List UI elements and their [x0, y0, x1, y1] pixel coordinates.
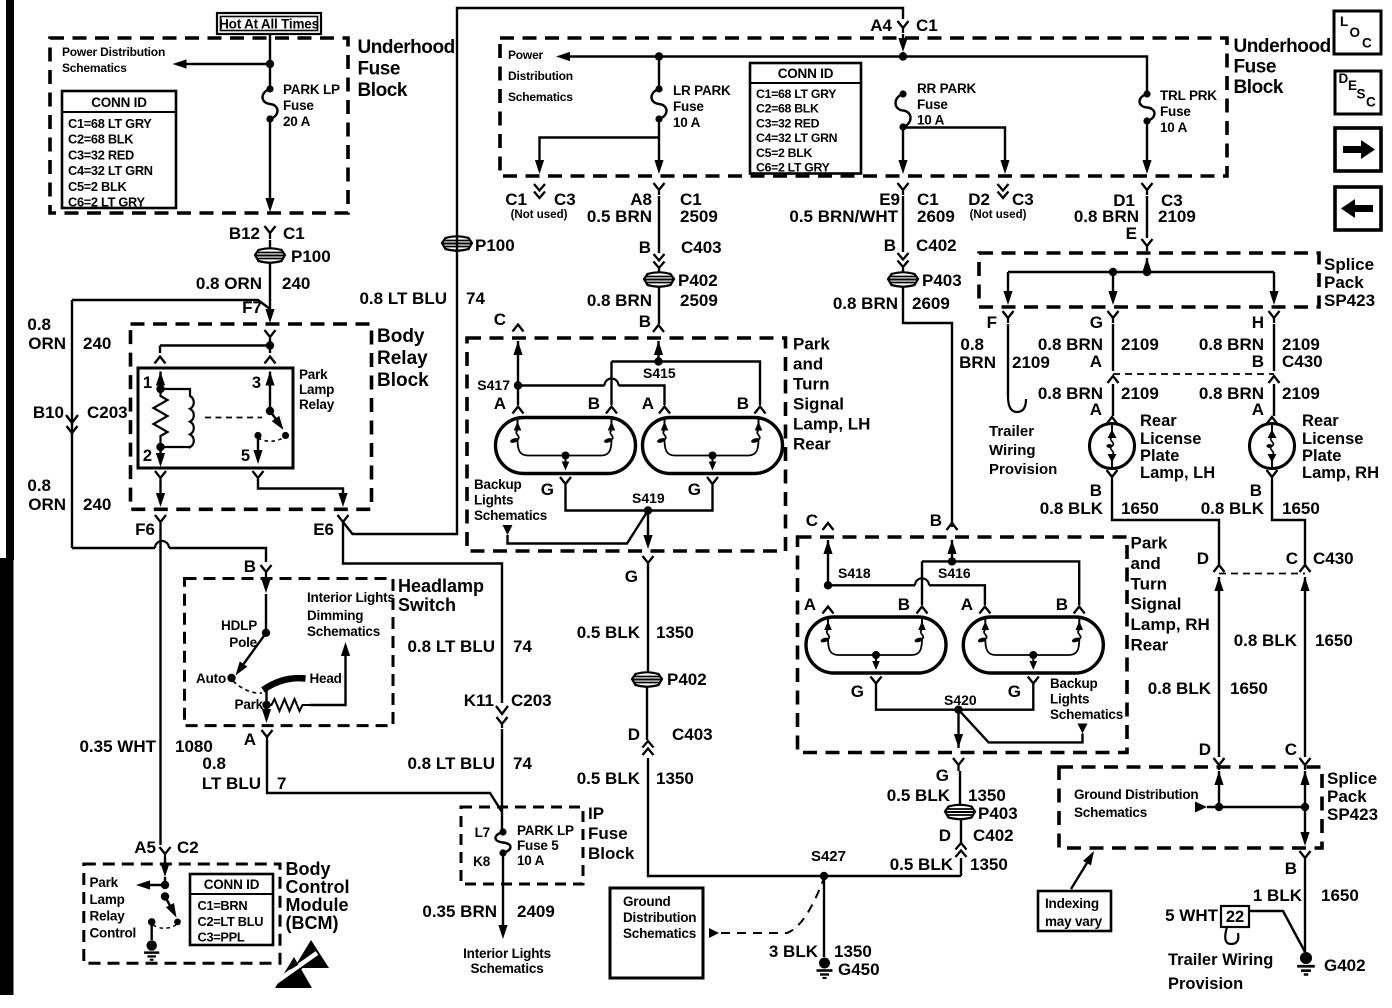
svg-text:Trailer: Trailer	[989, 423, 1034, 440]
svg-text:Block: Block	[358, 80, 408, 101]
svg-text:0.8 LT BLU: 0.8 LT BLU	[407, 754, 495, 773]
arrow fuse block feed	[902, 34, 904, 40]
svg-text:Signal: Signal	[793, 395, 844, 414]
svg-text:Park: Park	[90, 875, 119, 890]
svg-text:1350: 1350	[656, 623, 694, 642]
wire D to splice pack	[1214, 577, 1223, 591]
svg-text:0.5 BLK: 0.5 BLK	[577, 769, 641, 788]
svg-text:C1=68 LT GRY: C1=68 LT GRY	[756, 87, 836, 101]
svg-text:C1: C1	[283, 224, 305, 243]
svg-text:3 BLK: 3 BLK	[769, 942, 819, 961]
wire E6 up to fuse block feed	[343, 8, 903, 534]
splice S417	[513, 341, 522, 355]
svg-text:Park: Park	[1131, 534, 1168, 553]
svg-text:Lights: Lights	[474, 493, 513, 508]
dashed travel arc	[233, 681, 262, 693]
svg-text:Headlamp: Headlamp	[398, 576, 484, 596]
dashed box IP Fuse Block	[461, 807, 583, 884]
svg-text:0.35 BRN: 0.35 BRN	[422, 902, 497, 921]
svg-text:A: A	[1090, 352, 1102, 371]
svg-text:Block: Block	[588, 844, 635, 863]
lamp park/turn RH inner	[963, 617, 1103, 673]
dashed box Headlamp Switch	[185, 579, 394, 726]
wire C to splice pack	[1300, 577, 1309, 591]
svg-text:S419: S419	[632, 490, 665, 506]
svg-text:C: C	[1366, 95, 1376, 110]
svg-text:C203: C203	[87, 403, 128, 422]
wire C ground out	[1304, 807, 1306, 838]
splice S427	[820, 872, 828, 880]
relay coil-switch dashed link	[205, 417, 262, 419]
svg-text:Block: Block	[1234, 77, 1284, 98]
svg-text:Provision: Provision	[989, 461, 1057, 478]
svg-text:B: B	[1285, 859, 1297, 878]
svg-text:0.5 BRN/WHT: 0.5 BRN/WHT	[789, 207, 898, 226]
svg-text:L7: L7	[475, 825, 490, 840]
svg-text:C403: C403	[681, 238, 722, 257]
svg-text:Block: Block	[377, 370, 429, 391]
splice bus ground	[1214, 771, 1223, 785]
connector C lower	[1300, 758, 1311, 770]
arrow to Power Distribution Schematics	[184, 63, 270, 65]
svg-text:Schematics: Schematics	[474, 508, 547, 523]
svg-text:0.8 LT BLU: 0.8 LT BLU	[359, 289, 447, 308]
connector B below LH plate lamp	[1107, 470, 1118, 482]
svg-text:10 A: 10 A	[1160, 120, 1188, 135]
svg-text:240: 240	[83, 334, 111, 353]
svg-text:Indexing: Indexing	[1045, 896, 1099, 911]
wire 0.35 BRN 2409	[502, 853, 504, 925]
wire branch to D2/C3 not used	[903, 128, 1005, 163]
svg-text:C2: C2	[177, 838, 199, 857]
svg-text:Turn: Turn	[1131, 574, 1168, 593]
svg-text:Schematics: Schematics	[470, 961, 543, 976]
svg-text:C: C	[1285, 740, 1297, 759]
connector G lamp2	[707, 477, 718, 489]
button LOC	[1334, 11, 1381, 54]
svg-text:B: B	[1252, 352, 1264, 371]
svg-text:Control: Control	[90, 926, 137, 941]
ground G402	[1297, 952, 1315, 975]
fuse RR PARK 10 A	[899, 90, 906, 97]
svg-text:Interior Lights: Interior Lights	[463, 946, 551, 961]
svg-text:P402: P402	[667, 670, 707, 689]
svg-text:0.8 BLK: 0.8 BLK	[1234, 631, 1298, 650]
wire H drop	[1273, 272, 1275, 296]
svg-text:Splice: Splice	[1324, 255, 1374, 274]
svg-text:A4: A4	[870, 16, 892, 35]
svg-text:7: 7	[277, 774, 286, 793]
svg-text:(BCM): (BCM)	[286, 913, 339, 933]
svg-text:1650: 1650	[1121, 499, 1159, 518]
svg-text:G: G	[1090, 313, 1103, 332]
dashed box Body Control Module	[84, 864, 280, 963]
wire 0.8 ORN 240	[269, 262, 271, 318]
BCM switch contact and ground	[148, 918, 156, 926]
wire F trailer provision stub	[1007, 324, 1009, 396]
svg-text:C3=PPL: C3=PPL	[198, 930, 245, 945]
svg-text:10 A: 10 A	[673, 115, 701, 130]
svg-text:L: L	[1340, 14, 1348, 29]
svg-text:E6: E6	[313, 520, 334, 539]
svg-text:P403: P403	[978, 804, 1018, 823]
svg-text:Relay: Relay	[90, 909, 126, 924]
wire Hot feed down	[269, 34, 271, 89]
svg-text:BRN: BRN	[959, 353, 996, 372]
BCM driver switch	[161, 892, 169, 900]
svg-text:Schematics: Schematics	[1050, 707, 1123, 722]
svg-text:P402: P402	[678, 271, 718, 290]
svg-text:B: B	[737, 394, 749, 413]
svg-text:CONN ID: CONN ID	[778, 66, 834, 81]
wire 0.8 ORN 240 left branch	[71, 300, 73, 548]
svg-text:Switch: Switch	[398, 595, 456, 615]
svg-text:Lamp, RH: Lamp, RH	[1131, 615, 1210, 634]
svg-text:C1=BRN: C1=BRN	[198, 898, 248, 913]
svg-text:D: D	[939, 826, 951, 845]
svg-text:SP423: SP423	[1324, 291, 1375, 310]
svg-text:K11: K11	[464, 691, 494, 710]
svg-text:Schematics: Schematics	[62, 61, 127, 75]
svg-text:IP: IP	[588, 804, 604, 823]
arrow park lamp relay control	[147, 884, 165, 886]
contact Head thick arc	[263, 678, 306, 690]
svg-text:B10: B10	[33, 403, 64, 422]
svg-text:Rear: Rear	[793, 435, 831, 454]
lamp Rear License Plate LH	[1107, 417, 1118, 424]
label Hot At All Times	[217, 13, 321, 34]
svg-text:1: 1	[143, 374, 152, 392]
relay pin 2	[156, 443, 164, 451]
svg-text:S: S	[1357, 87, 1366, 102]
svg-text:License: License	[1140, 430, 1201, 448]
splice S419	[566, 489, 713, 511]
svg-text:Lamp, LH: Lamp, LH	[793, 415, 870, 434]
lamp Rear License Plate RH	[1267, 417, 1278, 424]
svg-text:Backup: Backup	[474, 477, 522, 492]
connector G exit LH cluster	[643, 556, 654, 569]
svg-text:Relay: Relay	[299, 397, 335, 412]
svg-text:Distribution: Distribution	[508, 69, 573, 83]
relay pin 2 exit to F6	[155, 471, 166, 478]
wire 0.5 BRN/WHT 2609	[902, 196, 904, 252]
connector A	[262, 730, 273, 742]
svg-text:0.35 WHT: 0.35 WHT	[79, 737, 156, 756]
wire TRL PRK output	[1146, 121, 1148, 162]
pointer Backup Lights Schematics RH	[1078, 724, 1088, 734]
bus wire in fuse block	[568, 57, 1147, 95]
ground G450	[817, 958, 833, 979]
connector A8 C1	[654, 183, 665, 195]
svg-text:B: B	[1250, 481, 1262, 500]
svg-text:0.8 BRN: 0.8 BRN	[587, 291, 652, 310]
wire LR PARK output	[658, 119, 660, 162]
svg-text:5 WHT: 5 WHT	[1165, 906, 1219, 925]
dashed box Underhood Fuse Block (left)	[50, 38, 348, 213]
svg-text:Module: Module	[286, 895, 349, 915]
svg-text:C4=32 LT GRN: C4=32 LT GRN	[756, 131, 838, 145]
svg-text:P403: P403	[922, 271, 962, 290]
svg-text:Lamp: Lamp	[90, 892, 125, 907]
svg-text:C203: C203	[511, 691, 552, 710]
relay pin 5 exit to E6	[253, 471, 264, 478]
svg-text:O: O	[1350, 25, 1361, 40]
svg-text:B: B	[884, 236, 896, 255]
wire branch to C1/C3 not used	[540, 138, 660, 163]
svg-text:C6=2 LT GRY: C6=2 LT GRY	[756, 161, 830, 175]
svg-text:C430: C430	[1313, 549, 1354, 568]
box Ground Distribution Schematics	[610, 888, 703, 978]
wire H 0.8 BRN 2109	[1273, 324, 1275, 371]
svg-text:F6: F6	[135, 520, 155, 539]
svg-text:2609: 2609	[912, 294, 950, 313]
connector G lamp4	[1028, 677, 1039, 689]
svg-text:C: C	[494, 310, 506, 329]
svg-text:Relay: Relay	[377, 348, 428, 369]
svg-text:C6=2 LT GRY: C6=2 LT GRY	[68, 195, 145, 210]
svg-text:B: B	[1090, 481, 1102, 500]
relay pin 1 terminal	[159, 346, 161, 354]
svg-text:B: B	[639, 312, 651, 331]
svg-text:Plate: Plate	[1302, 447, 1341, 465]
button previous arrow	[1335, 187, 1381, 230]
svg-text:B: B	[930, 511, 942, 530]
svg-text:A: A	[1252, 400, 1264, 419]
svg-text:Lamp: Lamp	[299, 382, 334, 397]
svg-text:A: A	[1090, 400, 1102, 419]
svg-text:20 A: 20 A	[283, 114, 311, 129]
svg-text:2609: 2609	[917, 207, 955, 226]
svg-text:H: H	[1252, 313, 1264, 332]
svg-text:F: F	[987, 313, 997, 332]
svg-text:0.5 BRN: 0.5 BRN	[587, 207, 652, 226]
wire relay feed	[269, 338, 271, 346]
svg-text:B: B	[1056, 595, 1068, 614]
svg-text:B: B	[588, 394, 600, 413]
fuse PARK LP 20 A	[266, 85, 273, 92]
svg-text:C1=68 LT GRY: C1=68 LT GRY	[68, 116, 152, 131]
svg-text:G402: G402	[1324, 956, 1366, 975]
dashed box Splice Pack SP423	[979, 253, 1319, 307]
svg-text:0.8: 0.8	[27, 476, 51, 495]
svg-text:240: 240	[282, 274, 310, 293]
svg-text:CONN ID: CONN ID	[91, 95, 147, 110]
wire G 0.5 BLK 1350 RH	[959, 771, 961, 806]
svg-text:Underhood: Underhood	[1234, 36, 1331, 57]
svg-text:Fuse: Fuse	[1160, 104, 1191, 119]
svg-text:C2=LT BLU: C2=LT BLU	[198, 914, 264, 929]
svg-text:Interior Lights: Interior Lights	[307, 590, 395, 605]
svg-text:S417: S417	[477, 377, 510, 393]
svg-text:2509: 2509	[680, 291, 718, 310]
svg-text:Fuse: Fuse	[917, 97, 948, 112]
pointer Backup Lights Schematics LH	[503, 525, 513, 535]
svg-text:Lamp, RH: Lamp, RH	[1302, 464, 1379, 482]
connector F7 entry	[265, 330, 276, 337]
svg-text:may vary: may vary	[1045, 914, 1103, 929]
svg-text:Auto: Auto	[196, 671, 226, 686]
label Indexing may vary	[1038, 891, 1111, 931]
page edge black bar	[6, 0, 14, 560]
svg-text:10 A: 10 A	[917, 113, 945, 128]
svg-text:PARK LP: PARK LP	[283, 82, 340, 97]
svg-text:1650: 1650	[1315, 631, 1353, 650]
dashed box Underhood Fuse Block (center)	[500, 38, 1227, 176]
svg-text:C4=32 LT GRN: C4=32 LT GRN	[68, 163, 153, 178]
contact Park	[265, 690, 267, 705]
svg-text:0.8 BRN: 0.8 BRN	[833, 294, 898, 313]
button next arrow	[1335, 128, 1381, 171]
svg-text:LT BLU: LT BLU	[202, 774, 261, 793]
svg-text:0.8 BLK: 0.8 BLK	[1201, 499, 1265, 518]
svg-text:B12: B12	[229, 224, 260, 243]
connector B below RH plate lamp	[1267, 470, 1278, 482]
svg-text:A: A	[804, 595, 816, 614]
svg-text:Turn: Turn	[793, 375, 830, 394]
splice bus SP423	[1142, 258, 1151, 272]
svg-text:Park: Park	[235, 697, 264, 712]
dashed line C430 lower	[1219, 573, 1305, 575]
svg-text:B: B	[244, 557, 256, 576]
wire to headlamp switch B	[72, 547, 155, 549]
svg-text:1650: 1650	[1321, 886, 1359, 905]
wire trailer stub to ground	[1249, 911, 1305, 952]
svg-text:Fuse 5: Fuse 5	[517, 838, 559, 853]
connector G lamp3	[871, 677, 882, 689]
svg-text:P100: P100	[475, 236, 515, 255]
connector E6	[338, 515, 349, 528]
svg-text:C402: C402	[916, 236, 957, 255]
svg-text:0.8 ORN: 0.8 ORN	[196, 274, 262, 293]
svg-text:Plate: Plate	[1140, 447, 1179, 465]
connector E9 C1	[898, 183, 909, 195]
relay pin 3 switch pivot	[265, 372, 274, 386]
svg-text:C5=2 BLK: C5=2 BLK	[756, 146, 812, 160]
svg-text:LR PARK: LR PARK	[673, 83, 731, 98]
wire 0.8 BRN 2509	[658, 286, 660, 324]
wire park output to A	[265, 705, 267, 717]
svg-text:C3=32 RED: C3=32 RED	[68, 147, 134, 162]
lamp park/turn LH inner	[643, 418, 783, 474]
connector F	[1003, 311, 1014, 323]
svg-text:A: A	[961, 595, 973, 614]
svg-text:RR PARK: RR PARK	[917, 81, 977, 96]
svg-text:Park: Park	[299, 367, 328, 382]
dashed box Park and Turn Signal Lamp RH Rear	[798, 537, 1128, 753]
svg-text:E: E	[1126, 224, 1137, 243]
connector C430 upper dashed	[1113, 373, 1274, 375]
svg-text:Schematics: Schematics	[508, 90, 573, 104]
svg-text:Rear: Rear	[1302, 412, 1339, 430]
svg-text:TRL PRK: TRL PRK	[1160, 88, 1217, 103]
svg-text:C: C	[806, 511, 818, 530]
svg-text:S416: S416	[938, 565, 971, 581]
svg-text:Pack: Pack	[1327, 787, 1367, 806]
connector F6	[155, 515, 166, 528]
fuse TRL PRK 10 A	[1143, 90, 1150, 97]
contact Auto	[227, 674, 235, 682]
svg-text:1650: 1650	[1282, 499, 1320, 518]
svg-text:Fuse: Fuse	[588, 824, 628, 843]
svg-text:Schematics: Schematics	[1074, 805, 1147, 820]
dashed box Park and Turn Signal Lamp LH Rear	[467, 338, 786, 551]
fuse PARK LP Fuse 5 10 A	[499, 828, 506, 835]
connector table CONN ID (BCM)	[190, 874, 273, 945]
inline connector P402	[658, 269, 660, 273]
headlamp switch resistor	[267, 699, 310, 711]
svg-text:A: A	[642, 394, 654, 413]
node F7 branch	[72, 300, 270, 309]
svg-text:74: 74	[513, 754, 532, 773]
button DESC	[1335, 71, 1381, 114]
svg-text:D: D	[628, 725, 640, 744]
svg-text:0.8: 0.8	[202, 754, 226, 773]
svg-text:0.8: 0.8	[27, 315, 51, 334]
connector G	[1108, 311, 1119, 323]
svg-text:Signal: Signal	[1131, 595, 1182, 614]
svg-text:ORN: ORN	[28, 495, 66, 514]
svg-text:1350: 1350	[968, 786, 1006, 805]
svg-text:K8: K8	[473, 854, 491, 869]
svg-text:2109: 2109	[1121, 384, 1159, 403]
wire E6 down to IP fuse block	[343, 528, 502, 703]
svg-text:Ground: Ground	[623, 894, 671, 909]
wire 0.8 BLK 1650 LH	[1112, 482, 1219, 565]
wire S415 to lamps	[654, 341, 663, 355]
svg-text:Rear: Rear	[1131, 636, 1169, 655]
svg-text:S427: S427	[811, 848, 846, 865]
svg-text:(Not used): (Not used)	[970, 209, 1027, 221]
svg-text:1350: 1350	[656, 769, 694, 788]
svg-text:C: C	[1362, 36, 1372, 51]
headlamp switch arm to Auto	[240, 633, 266, 669]
inline connector P403	[902, 268, 904, 273]
svg-text:Splice: Splice	[1327, 769, 1377, 788]
connector G lamp1	[560, 477, 571, 489]
svg-text:C2=68 BLK: C2=68 BLK	[68, 132, 134, 147]
relay pin 5	[254, 432, 261, 439]
svg-text:Fuse: Fuse	[358, 59, 401, 80]
connector D C402	[956, 843, 967, 857]
svg-text:D2: D2	[968, 190, 990, 209]
svg-text:D: D	[1199, 740, 1211, 759]
wire BCM input	[164, 858, 166, 864]
svg-text:G: G	[688, 480, 701, 499]
svg-text:A: A	[244, 730, 256, 749]
svg-text:G450: G450	[838, 960, 880, 979]
headlamp switch pole	[265, 594, 267, 633]
svg-text:PARK LP: PARK LP	[517, 823, 574, 838]
inline connector P403 lower	[960, 819, 962, 843]
relay Park Lamp Relay box	[138, 368, 293, 468]
splice S420	[876, 689, 1033, 710]
svg-text:C3: C3	[1012, 190, 1034, 209]
connector D lower	[1214, 758, 1225, 770]
wire 0.8 BRN 2109	[1146, 196, 1148, 238]
svg-text:Power Distribution: Power Distribution	[62, 45, 165, 59]
wire G 0.8 BRN 2109	[1112, 324, 1114, 371]
connector G exit RH cluster	[953, 758, 964, 771]
svg-text:G: G	[936, 766, 949, 785]
svg-text:Rear: Rear	[1140, 412, 1177, 430]
svg-text:C403: C403	[672, 725, 713, 744]
relay pin 3 terminal	[269, 346, 271, 354]
svg-text:Control: Control	[286, 877, 350, 897]
inline connector P402 lower	[632, 672, 662, 686]
svg-text:F7: F7	[242, 298, 262, 317]
svg-text:C5=2 BLK: C5=2 BLK	[68, 179, 127, 194]
svg-text:Schematics: Schematics	[623, 926, 696, 941]
